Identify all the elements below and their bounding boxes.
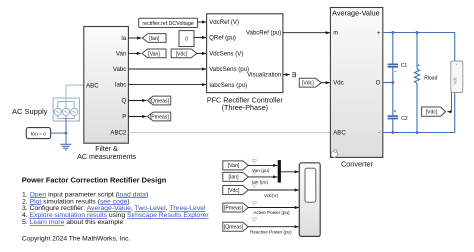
wire ABC2 to Converter ABC (three-phase) — [128, 132, 330, 134]
svg-text:Average-Value: Average-Value — [332, 9, 380, 18]
voltage sensor Vdc — [451, 61, 463, 93]
svg-text:2. Plot simulation results (se: 2. Plot simulation results (see code) — [22, 198, 130, 205]
svg-text:Converter: Converter — [341, 160, 374, 169]
svg-text:Reactive Power (pu): Reactive Power (pu) — [250, 230, 292, 235]
from tag [Vdc] top — [171, 49, 197, 58]
wire Van to mux — [248, 164, 277, 166]
subsystem Average-Value Converter — [330, 8, 382, 169]
logging badge Van — [252, 159, 257, 164]
svg-text:Vdc(V): Vdc(V) — [264, 193, 279, 198]
logging badge Qmeas — [252, 218, 257, 223]
svg-text:4. Explore simulation results: 4. Explore simulation results using Sims… — [22, 212, 209, 219]
svg-text:[Pmeas]: [Pmeas] — [150, 114, 170, 120]
wire Iabc to controller IabcSens — [128, 84, 206, 86]
wire 0 to QRef — [194, 37, 206, 39]
from tag [Pmeas] bottom — [223, 203, 248, 212]
svg-text:Van: Van — [116, 50, 126, 57]
constant rectifier.ref.DCVoltage — [139, 18, 198, 27]
capacitor branch wire — [392, 33, 394, 133]
from tag [Ian] bottom — [223, 172, 248, 181]
svg-text:[Van]: [Van] — [148, 51, 160, 57]
svg-text:Visualization: Visualization — [247, 71, 281, 78]
svg-text:f(x) = 0: f(x) = 0 — [31, 131, 46, 137]
svg-text:[Pmeas]: [Pmeas] — [224, 205, 244, 211]
svg-text:C1: C1 — [401, 63, 408, 69]
svg-text:[Vdc]: [Vdc] — [176, 51, 188, 57]
wire constant to VdcRef — [198, 21, 207, 23]
svg-text:m: m — [333, 30, 338, 37]
wire Q to goto Qmeas — [128, 100, 146, 102]
logging badge Ian — [252, 171, 257, 176]
svg-text:AC Supply: AC Supply — [12, 107, 48, 116]
svg-text:VabcSens (pu): VabcSens (pu) — [209, 66, 249, 73]
svg-text:O: O — [376, 80, 381, 87]
bus junctions — [391, 31, 418, 134]
wire supply to ground — [65, 118, 67, 144]
svg-text:Active Power (pu): Active Power (pu) — [253, 210, 290, 215]
wire Visualization to terminator — [283, 74, 290, 76]
goto tag [Qmeas] — [148, 96, 171, 105]
subsystem PFC Rectifier Controller U1 — [207, 14, 284, 112]
wire supply to Filter ABC — [66, 85, 84, 102]
wire Van to goto Van — [128, 52, 141, 54]
svg-text:0: 0 — [185, 37, 188, 43]
svg-text:[Qmeas]: [Qmeas] — [224, 225, 244, 231]
from tag [Vdc] mid — [299, 78, 321, 87]
C2 plus mark — [394, 110, 396, 112]
wire Qmeas to scope — [248, 226, 299, 228]
wire Vabc to controller VabcSens — [128, 68, 206, 70]
wire Pmeas to scope — [248, 207, 299, 209]
svg-text:VabcRef (pu): VabcRef (pu) — [246, 29, 281, 36]
wire Ian to mux — [248, 176, 277, 178]
svg-text:P: P — [122, 114, 126, 121]
svg-text:Ia: Ia — [121, 35, 127, 42]
goto tag [Van] — [142, 49, 166, 58]
svg-text:C2: C2 — [401, 116, 408, 122]
svg-text:[Qmeas]: [Qmeas] — [149, 98, 169, 104]
svg-text:[Ian]: [Ian] — [149, 36, 160, 42]
svg-text:Power Factor Correction Rectif: Power Factor Correction Rectifier Design — [22, 175, 167, 184]
svg-text:3. Configure rectifier: Averag: 3. Configure rectifier: Average-Value, T… — [22, 205, 206, 212]
svg-text:(Three-Phase): (Three-Phase) — [222, 103, 268, 112]
svg-text:5. Learn more about this examp: 5. Learn more about this example — [22, 219, 123, 226]
svg-text:Vdc: Vdc — [333, 80, 344, 87]
svg-text:Vdc: Vdc — [453, 77, 458, 84]
wire solver to node — [51, 132, 66, 134]
svg-text:Filter &: Filter & — [95, 145, 118, 153]
wire mux to scope — [281, 171, 299, 173]
wire Vdc tag to VdcSens — [197, 52, 206, 54]
svg-text:rectifier.ref.DCVoltage: rectifier.ref.DCVoltage — [142, 21, 194, 27]
goto tag [Vdc] right — [422, 107, 446, 116]
wire Vdc to scope — [248, 189, 299, 191]
C1 minus mark — [394, 70, 396, 72]
svg-text:[Vdc]: [Vdc] — [302, 81, 314, 87]
visualization port icon — [292, 72, 296, 77]
capacitor C2 — [388, 116, 398, 118]
svg-text:QRef (pu): QRef (pu) — [209, 35, 236, 42]
svg-text:AC measurements: AC measurements — [77, 153, 136, 161]
mux — [278, 160, 281, 183]
wire Ia to goto Ian — [128, 37, 141, 39]
svg-text:[Ian]: [Ian] — [228, 175, 239, 181]
from tag [Van] bottom — [223, 161, 248, 170]
constant 0 — [179, 31, 194, 47]
goto tag [Ian] — [142, 34, 166, 43]
from tag [Qmeas] bottom — [223, 222, 248, 231]
svg-text:-: - — [378, 129, 380, 136]
svg-text:Q: Q — [122, 98, 127, 105]
svg-text:[Vdc]: [Vdc] — [228, 188, 240, 194]
svg-text:Copyright 2024 The MathWorks,: Copyright 2024 The MathWorks, Inc. — [22, 235, 131, 242]
wire O to capacitor midpoint — [383, 82, 393, 84]
node junction — [65, 132, 68, 135]
scope block — [299, 163, 320, 237]
solver block f(x)=0 — [26, 128, 50, 139]
svg-text:VdcRef (V): VdcRef (V) — [209, 19, 239, 26]
ground — [60, 144, 71, 150]
svg-text:[Van]: [Van] — [228, 163, 240, 169]
subsystem Filter & AC measurements — [77, 27, 136, 161]
svg-text:[Vdc]: [Vdc] — [426, 110, 438, 116]
svg-text:ABC: ABC — [333, 130, 346, 137]
svg-text:ABC: ABC — [86, 82, 99, 89]
svg-text:IabcSens (pu): IabcSens (pu) — [209, 82, 247, 89]
svg-text:1. Open input parameter script: 1. Open input parameter script (load dat… — [22, 191, 148, 198]
svg-text:Iabc: Iabc — [115, 82, 127, 89]
resistor Rload branch — [414, 33, 419, 133]
svg-text:Rload: Rload — [424, 75, 437, 81]
logging badge Vdc — [252, 184, 257, 189]
from tag [Vdc] bottom — [223, 186, 248, 195]
DC bus bottom wire — [383, 93, 455, 133]
svg-text:ABC2: ABC2 — [110, 129, 127, 136]
three-phase source AC Supply — [53, 98, 79, 121]
svg-text:+: + — [377, 30, 381, 37]
wire P to goto Pmeas — [128, 116, 146, 118]
wire VabcRef to Converter m — [283, 32, 330, 34]
goto tag [Pmeas] — [148, 112, 171, 121]
svg-text:Vabc: Vabc — [113, 66, 126, 73]
DC bus top wire — [383, 33, 455, 62]
converter variant badge — [331, 150, 338, 158]
Rload plus mark — [418, 64, 420, 66]
svg-text:VdcSens (V): VdcSens (V) — [209, 50, 243, 57]
sensor output wire — [447, 93, 451, 112]
capacitor C1 — [388, 64, 398, 66]
logging badge Pmeas — [252, 201, 257, 206]
wire Vdc tag to Converter Vdc — [321, 82, 330, 84]
